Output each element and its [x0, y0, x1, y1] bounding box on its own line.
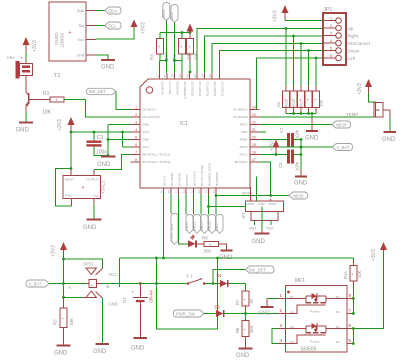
net flag SDA (vertical)	[161, 3, 170, 21]
wire C3/C7 to GND	[294, 140, 302, 171]
svg-text:P-chan: P-chan	[310, 340, 320, 344]
wire R14 to MF1 pins 8,7	[352, 286, 355, 315]
svg-text:GND: GND	[93, 349, 107, 355]
ground GND (ISP)	[252, 229, 270, 245]
svg-text:D2: D2	[215, 305, 221, 310]
svg-text:D1: D1	[336, 310, 340, 314]
svg-text:SCL: SCL	[108, 23, 117, 28]
svg-text:ADC7: ADC7	[239, 123, 247, 127]
svg-text:+: +	[20, 56, 23, 61]
svg-text:2: 2	[330, 24, 332, 28]
svg-text:OE/ST: OE/ST	[65, 178, 74, 182]
wire OLED Sda to SDA flag	[96, 10, 105, 12]
resistor R9	[276, 86, 290, 114]
svg-text:S 1: S 1	[186, 274, 193, 279]
ground GND (R8)	[236, 349, 253, 360]
svg-text:4: 4	[280, 338, 283, 343]
svg-text:R1: R1	[43, 91, 50, 97]
net flag PWR_SW (vertical)	[169, 214, 178, 245]
wire pulldown common rail to GND	[286, 112, 316, 118]
svg-text:1: 1	[135, 106, 137, 110]
wire XTAL1 output to IC pin7	[94, 155, 131, 176]
supply +3V3 (thermistor)	[357, 79, 372, 95]
net flag NB18 (vertical)	[208, 195, 216, 234]
svg-text:12: 12	[182, 189, 186, 193]
svg-text:25: 25	[208, 74, 212, 78]
svg-text:MOSI: MOSI	[247, 202, 255, 206]
IC1 right pins 17-24	[233, 106, 260, 165]
svg-text:+3V3: +3V3	[273, 10, 279, 22]
svg-text:Right: Right	[348, 34, 359, 39]
svg-text:1K: 1K	[249, 299, 254, 304]
svg-text:GND: GND	[65, 194, 73, 198]
svg-text:19: 19	[252, 143, 256, 147]
wire SW_DET to IC pin1	[116, 92, 131, 110]
svg-text:+3V3: +3V3	[57, 119, 63, 131]
svg-text:3: 3	[330, 32, 332, 36]
svg-text:D4 (XCK/T0): D4 (XCK/T0)	[143, 115, 160, 119]
supply +3V3 (OLED)	[131, 20, 147, 35]
ground GND (MF1 pin1)	[258, 307, 274, 317]
svg-text:R2: R2	[53, 319, 58, 325]
capacitor C1	[87, 135, 108, 156]
svg-text:1: 1	[330, 17, 332, 21]
svg-text:R14: R14	[343, 271, 348, 279]
transistor Q2 lower P-FET inside MF1	[286, 323, 348, 344]
svg-text:Down: Down	[348, 49, 360, 54]
svg-text:C5 (ADC5): C5 (ADC5)	[191, 82, 195, 97]
net flag SDA	[105, 7, 121, 14]
wire pullup rail	[160, 31, 191, 38]
svg-text:Scl: Scl	[78, 23, 84, 28]
wire SDA column to IC pin31	[160, 21, 168, 74]
svg-text:6: 6	[349, 323, 352, 328]
svg-text:100n: 100n	[295, 129, 300, 139]
wire JP1 pin5 Down to IC top pin	[220, 49, 324, 73]
supply +3V3 (reset)	[187, 24, 194, 39]
net flag SCL (vertical)	[169, 5, 178, 23]
svg-text:15: 15	[204, 189, 208, 193]
wire SCL column to IC pin30	[173, 23, 182, 74]
wire OLED Scl to SCL flag	[96, 25, 105, 27]
wire JP1 pin3 Right to IC pin26	[205, 35, 324, 73]
svg-text:4: 4	[330, 39, 332, 43]
svg-text:8: 8	[135, 158, 137, 162]
svg-text:28: 28	[185, 74, 189, 78]
svg-text:AVCC: AVCC	[239, 153, 248, 157]
svg-text:C6 (/RESET): C6 (/RESET)	[183, 82, 187, 100]
svg-text:GND: GND	[236, 353, 250, 359]
wire switched power rail	[120, 257, 354, 329]
svg-text:V_BAT: V_BAT	[337, 145, 350, 150]
wire +3V3 to XTAL1	[56, 132, 73, 206]
svg-text:R6: R6	[202, 236, 208, 241]
svg-text:+3V3: +3V3	[141, 22, 147, 34]
svg-text:C1 (ADC1): C1 (ADC1)	[221, 82, 225, 97]
svg-text:18: 18	[252, 151, 256, 155]
svg-text:MISO: MISO	[269, 202, 277, 206]
wire V_BAT net (IC pin19)	[260, 146, 333, 149]
transistor T1	[26, 90, 50, 112]
wire +3V3 to thermistor	[369, 93, 376, 102]
ground GND (R2)	[54, 346, 71, 357]
svg-text:D0 (RXD): D0 (RXD)	[176, 82, 180, 95]
svg-text:PWR_SW: PWR_SW	[176, 311, 195, 316]
wire OLED Gnd to GND	[96, 55, 108, 59]
wire VCC net	[70, 131, 131, 147]
svg-text:+3V3: +3V3	[32, 40, 38, 52]
svg-text:SDA: SDA	[108, 8, 117, 13]
resistor R6	[202, 236, 219, 254]
wire IC pin15 to ISP MOSI side	[207, 205, 245, 208]
IC1 top pins 25-32	[155, 73, 224, 99]
OLED display T1	[49, 2, 96, 79]
wire IC pin18 AVCC to C3	[260, 153, 288, 156]
svg-text:B7 (XTAL2 / TOSC2): B7 (XTAL2 / TOSC2)	[143, 160, 171, 164]
svg-text:+: +	[69, 30, 72, 36]
wire button pulldown columns	[286, 29, 316, 87]
svg-text:GND: GND	[252, 239, 266, 245]
svg-text:B: B	[107, 284, 110, 289]
svg-text:NB17: NB17	[215, 222, 219, 232]
IC1 bottom pins 9-16	[159, 163, 219, 194]
svg-text:NB18: NB18	[208, 222, 212, 232]
wire OLED Vcc to +3V3	[96, 28, 134, 39]
svg-text:OUTPUT: OUTPUT	[86, 178, 99, 182]
supply +3V3 (battery side)	[51, 242, 68, 257]
wire IC pin9 to power rail	[162, 195, 165, 260]
svg-text:17: 17	[252, 158, 256, 162]
ground GND (LED)	[219, 251, 233, 262]
svg-text:6: 6	[330, 54, 332, 58]
svg-text:PWR_SW: PWR_SW	[169, 224, 174, 242]
wire IC pin16 MISO net to NB19 flag	[215, 191, 289, 197]
svg-text:100n: 100n	[295, 161, 300, 171]
svg-text:24: 24	[252, 106, 256, 110]
resistor R11	[291, 86, 305, 114]
wire IC pin21 stub	[260, 131, 267, 133]
svg-text:5: 5	[330, 47, 332, 51]
svg-text:2: 2	[135, 113, 137, 117]
wire reset column to IC pin28	[189, 54, 192, 73]
svg-text:R12: R12	[298, 99, 303, 107]
svg-text:1: 1	[280, 293, 283, 298]
wire D1 to R7	[228, 284, 246, 292]
svg-text:2: 2	[280, 308, 283, 313]
svg-text:+3V3: +3V3	[51, 245, 57, 257]
svg-text:16: 16	[212, 189, 216, 193]
svg-text:NB16: NB16	[336, 122, 347, 127]
svg-text:R9: R9	[276, 101, 281, 107]
svg-text:C4 (ADC4): C4 (ADC4)	[198, 82, 202, 97]
svg-text:C7: C7	[279, 127, 284, 133]
svg-text:29: 29	[178, 74, 182, 78]
resistor R3	[150, 38, 170, 60]
svg-text:B5 (SCK): B5 (SCK)	[235, 160, 248, 164]
wire TEMP net (IC pin23 to thermistor)	[260, 112, 375, 117]
wire V_BAT flag to switch	[49, 283, 64, 285]
svg-text:+: +	[55, 98, 58, 103]
wire R6 to GND	[219, 244, 227, 250]
svg-text:C3 (ADC3): C3 (ADC3)	[206, 82, 210, 97]
svg-text:GND: GND	[143, 138, 151, 142]
svg-text:GND: GND	[258, 311, 270, 317]
svg-text:GND: GND	[131, 346, 145, 352]
resistor R14	[343, 258, 362, 286]
svg-text:B4 (MISO): B4 (MISO)	[215, 172, 219, 186]
net flag NB17 (vertical)	[215, 196, 223, 234]
svg-text:D1 (TXD): D1 (TXD)	[168, 82, 172, 95]
svg-text:GND: GND	[294, 181, 308, 187]
svg-text:AREF: AREF	[239, 138, 247, 142]
svg-text:128x32: 128x32	[60, 32, 65, 48]
svg-text:+3V3: +3V3	[357, 83, 363, 95]
svg-text:23: 23	[252, 113, 256, 117]
svg-text:GND: GND	[54, 351, 68, 357]
transistor Q1 upper P-FET inside MF1	[286, 291, 348, 314]
svg-text:Left: Left	[348, 56, 356, 61]
svg-text:Vcc: Vcc	[77, 37, 84, 42]
svg-text:D1: D1	[217, 273, 223, 278]
svg-text:GND: GND	[143, 123, 151, 127]
wire IC pin20 AREF to C7	[260, 139, 287, 141]
mosfet module MF1 SI4505	[278, 278, 355, 353]
svg-text:GND: GND	[258, 202, 266, 206]
svg-text:R7: R7	[235, 299, 240, 305]
wire +3V3 to MF1 pins 6,5	[352, 251, 384, 345]
wire buzzer to transistor collector	[25, 80, 27, 90]
resistor R7	[235, 291, 254, 306]
svg-text:SPST: SPST	[83, 262, 94, 267]
svg-text:B3 (MOSI / OC2): B3 (MOSI / OC2)	[208, 163, 212, 186]
svg-text:PB1: PB1	[7, 55, 15, 60]
net flag SW_DET	[87, 88, 116, 94]
wire S1 to D1 and SW_DET	[206, 270, 246, 285]
svg-text:GND: GND	[97, 162, 111, 168]
svg-text:GND: GND	[101, 65, 115, 71]
svg-text:3K9: 3K9	[249, 325, 254, 333]
wire R1 to IC pin2	[64, 100, 131, 118]
wire battery positive net	[62, 252, 102, 299]
svg-text:7: 7	[135, 151, 137, 155]
ground GND (SPST)	[93, 344, 109, 355]
resistor R10	[283, 86, 297, 114]
svg-text:R11: R11	[291, 99, 296, 107]
wire MF1 pin1 to GND	[267, 299, 278, 307]
svg-text:300: 300	[204, 249, 212, 254]
net flag PWR_SW (bottom)	[174, 310, 205, 317]
svg-text:MOSI: MOSI	[242, 191, 251, 195]
capacitor C3	[278, 150, 300, 172]
svg-text:10K: 10K	[69, 318, 74, 326]
svg-text:11: 11	[174, 190, 178, 193]
svg-text:B6 (XTAL1 / TOSC1): B6 (XTAL1 / TOSC1)	[143, 153, 171, 157]
svg-text:10K: 10K	[357, 270, 362, 278]
supply +3V3 (IC VCC)	[57, 117, 75, 131]
svg-text:B1 (OC1A): B1 (OC1A)	[193, 171, 197, 186]
svg-text:SDA: SDA	[161, 9, 166, 18]
svg-text:P-chan: P-chan	[310, 310, 320, 314]
svg-text:ADC6: ADC6	[239, 145, 247, 149]
svg-text:VCC: VCC	[109, 272, 118, 277]
svg-text:GND: GND	[241, 130, 249, 134]
supply +3V3 (JP1)	[273, 5, 289, 22]
resistor R5 reset pullup	[187, 38, 199, 60]
svg-text:MF1: MF1	[295, 278, 305, 284]
svg-text:13: 13	[189, 189, 193, 193]
net flag NB16	[332, 121, 351, 128]
net flag NB22 (vertical)	[185, 195, 193, 234]
ground GND (C1)	[97, 157, 116, 169]
wire R7 to R8 junction	[244, 306, 247, 321]
svg-text:SW_DET: SW_DET	[89, 89, 107, 94]
thermistor temperature sensor	[374, 103, 383, 118]
resistor R2	[53, 297, 75, 345]
resistor R4	[172, 38, 191, 60]
svg-text:G1: G1	[122, 297, 127, 303]
resistor R8	[235, 321, 254, 337]
svg-text:V_BAT: V_BAT	[29, 281, 42, 286]
wire JP1 pin6 Left to IC pin24	[257, 57, 324, 110]
svg-text:5: 5	[135, 136, 137, 140]
wire D2 to R7/R8 junction and MF1 gate pin2	[224, 313, 278, 315]
svg-text:NB13: NB13	[193, 222, 197, 232]
svg-text:D6 (AIN0): D6 (AIN0)	[170, 173, 174, 186]
wire IC pin11 to LED	[179, 195, 189, 244]
svg-text:GND: GND	[83, 225, 97, 231]
svg-text:+: +	[82, 185, 85, 191]
ground GND (OLED)	[101, 60, 115, 71]
svg-text:30: 30	[170, 74, 174, 78]
connector JP1	[323, 7, 370, 65]
svg-text:SCL: SCL	[169, 11, 174, 20]
wire MF1 pins 3-4 loop	[272, 329, 278, 344]
wire XTAL1 to GND	[93, 199, 95, 220]
connector JP5 ISP	[241, 177, 284, 231]
svg-text:D2 (INT0): D2 (INT0)	[161, 82, 165, 95]
net flag NB19	[289, 192, 308, 199]
svg-text:C2 (ADC2): C2 (ADC2)	[213, 82, 217, 97]
supply +3V3 (MF1 drains)	[371, 242, 387, 261]
ground GND (transistor)	[16, 123, 34, 134]
svg-text:100n: 100n	[96, 150, 107, 156]
resistor R13	[313, 86, 324, 114]
svg-text:XTAL1: XTAL1	[101, 180, 106, 194]
svg-text:5: 5	[349, 338, 352, 343]
svg-text:NB15: NB15	[200, 222, 204, 232]
svg-text:26: 26	[200, 74, 204, 78]
op-amp U1 IC1 microcontroller	[140, 79, 250, 188]
battery G1	[122, 282, 154, 337]
svg-text:31: 31	[163, 74, 167, 78]
svg-text:3: 3	[280, 323, 283, 328]
net flag V_BAT (left)	[26, 280, 49, 287]
net flag NB13 (vertical)	[193, 195, 201, 234]
svg-text:R8: R8	[235, 327, 240, 333]
svg-text:32: 32	[155, 74, 159, 78]
wire SPST GND side	[101, 298, 103, 344]
svg-text:GND: GND	[109, 302, 118, 307]
wire ISP GND pin to GND	[261, 207, 263, 230]
svg-text:D2: D2	[336, 340, 340, 344]
svg-text:VCC: VCC	[143, 130, 150, 134]
svg-text:GND: GND	[305, 136, 319, 142]
wire JP1 pin4 OK/Cancel to IC pin25	[212, 42, 323, 73]
svg-text:GND: GND	[16, 128, 30, 134]
wire R8 to GND	[245, 337, 247, 349]
svg-text:27: 27	[193, 74, 197, 78]
wire thermistor to GND	[383, 110, 390, 132]
net flag SCL	[105, 22, 121, 29]
svg-text:10: 10	[167, 189, 171, 193]
svg-text:SCK: SCK	[267, 227, 275, 231]
svg-text:10K: 10K	[42, 110, 52, 116]
svg-text:D5 (T1): D5 (T1)	[163, 176, 167, 186]
IC1 left pins 1-8	[131, 106, 171, 165]
supply +3V3 (buzzer)	[23, 37, 39, 52]
buzzer PB1	[7, 55, 33, 80]
svg-text:14: 14	[197, 189, 201, 193]
LED LED1	[188, 235, 204, 248]
svg-text:IC1: IC1	[180, 121, 188, 127]
svg-text:B2 (SS / OC1B): B2 (SS / OC1B)	[200, 165, 204, 186]
svg-text:10K: 10K	[194, 52, 199, 60]
wire GND net (IC pins 3,5, C1)	[94, 125, 131, 157]
svg-text:VCC: VCC	[143, 145, 150, 149]
svg-text:JP1: JP1	[324, 7, 333, 13]
wire IC pin10 to PWR_SW flag	[170, 195, 172, 214]
ground GND (battery)	[131, 338, 147, 352]
svg-text:8: 8	[349, 293, 352, 298]
svg-text:Gnd: Gnd	[76, 53, 84, 58]
svg-text:Up: Up	[348, 26, 354, 31]
svg-text:CR-AA: CR-AA	[149, 290, 154, 303]
svg-text:6: 6	[135, 143, 137, 147]
svg-text:JP5: JP5	[241, 211, 246, 219]
svg-text:+3V3: +3V3	[371, 249, 377, 261]
wire IC pin17 SCK down to MISO line	[260, 162, 271, 196]
svg-text:OK/Cancel: OK/Cancel	[348, 41, 370, 46]
svg-text:20: 20	[252, 136, 256, 140]
svg-text:Sda: Sda	[77, 8, 85, 13]
wire JP1 pin2 Up to IC pin27	[197, 27, 323, 73]
net flag V_BAT	[333, 144, 353, 151]
svg-text:GND: GND	[382, 137, 396, 143]
svg-text:C1 (ADC1): C1 (ADC1)	[233, 108, 248, 112]
wire PWR_SW to D2	[204, 313, 216, 315]
svg-text:C1: C1	[97, 135, 104, 141]
oscillator XTAL1	[63, 176, 106, 199]
svg-text:NB19: NB19	[293, 193, 304, 198]
capacitor C7	[279, 127, 300, 147]
wire +3V3 to JP1 pin1	[285, 20, 323, 22]
resistor R1	[42, 91, 64, 116]
ground GND (thermistor)	[382, 132, 396, 143]
svg-text:+: +	[132, 290, 135, 295]
svg-text:SI4505: SI4505	[301, 347, 317, 353]
wire +3V3 to buzzer	[25, 52, 27, 61]
svg-text:21: 21	[252, 128, 256, 132]
svg-text:+3V3: +3V3	[270, 139, 276, 151]
svg-text:3: 3	[135, 121, 137, 125]
switch SPST power	[68, 262, 118, 307]
ground GND (pulldowns)	[305, 118, 319, 142]
svg-text:RST: RST	[250, 227, 257, 231]
svg-text:A: A	[68, 285, 71, 290]
svg-text:SW_DET: SW_DET	[249, 267, 267, 272]
svg-text:B0 (ICP): B0 (ICP)	[185, 174, 189, 186]
switch S1	[155, 274, 206, 285]
